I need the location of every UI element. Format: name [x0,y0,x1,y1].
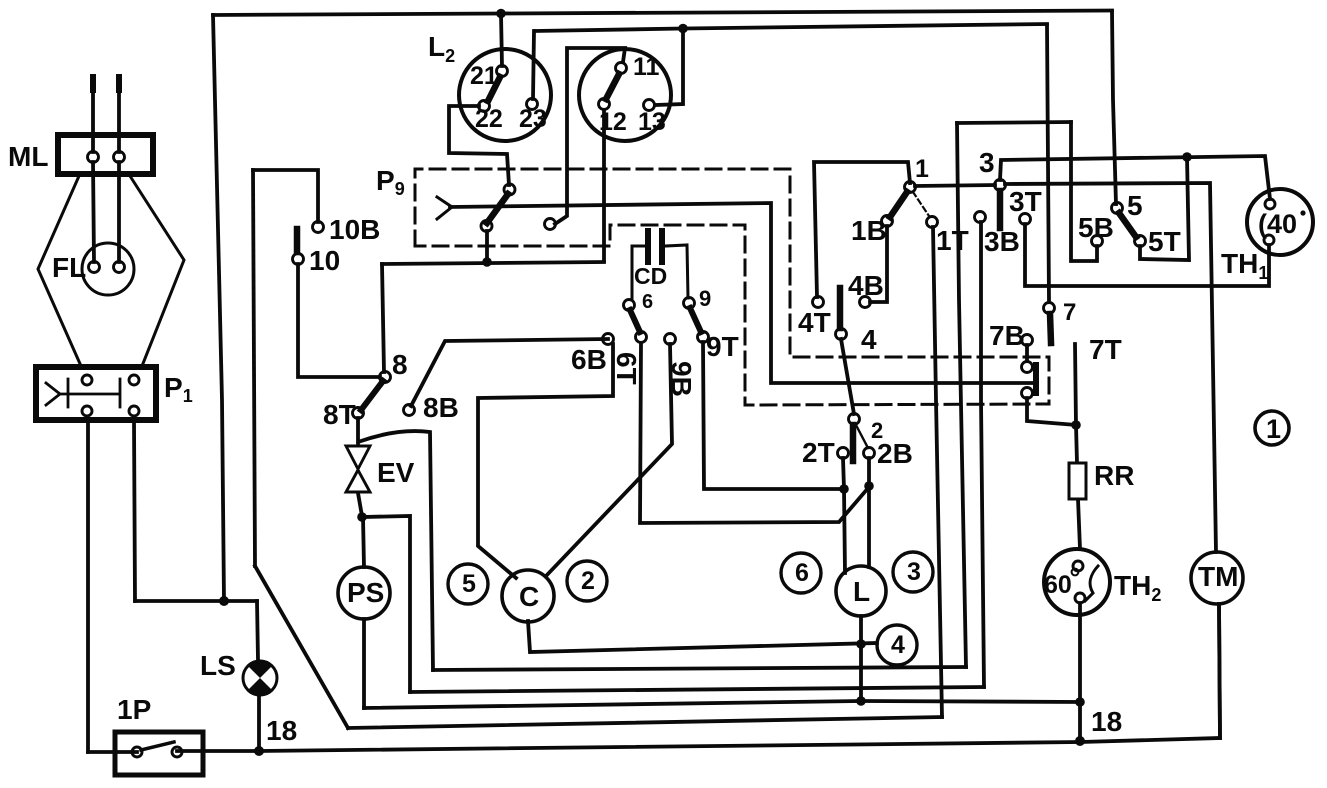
resistor RR [1069,463,1086,499]
terminal circle 4 [877,625,917,665]
wire: second bus drop to contact 7 [1047,25,1049,302]
switch 9 [665,298,709,345]
svg-text:LS: LS [200,650,236,681]
svg-text:3T: 3T [1009,186,1042,217]
svg-text:5: 5 [462,570,476,598]
switch 8 [353,372,415,419]
svg-text:8T: 8T [323,399,356,430]
switch 6 [603,300,647,345]
lamp LS [243,660,277,697]
svg-text:18: 18 [266,715,297,746]
wire: 2T lead [843,458,844,489]
svg-text:13: 13 [638,108,666,136]
terminal block ML [58,135,153,174]
wire: node 3 to TM drop [1005,183,1216,552]
wire: bottom bus riser to TM bottom [1219,604,1220,738]
svg-text:3: 3 [907,558,921,586]
wire: contact 8 riser [382,264,384,372]
junction dot P9 lower contact net [482,257,492,267]
terminal circle 6 [781,553,821,593]
svg-text:6T: 6T [611,352,642,385]
wire: P9 right contact riser to 11 [555,48,625,224]
switch 1 [882,182,938,228]
svg-text:4B: 4B [848,270,884,301]
wire: relay contact lower to RR junction [1027,398,1076,425]
svg-text:23: 23 [519,105,547,133]
svg-text:12: 12 [599,108,627,136]
svg-text:21: 21 [470,62,498,90]
wire: contact 21 riser to top bus [501,14,502,66]
wire: contact 13 link to second bus [655,29,683,105]
terminal circle 3 [893,552,933,592]
svg-text:8: 8 [392,349,408,380]
wire: RR bottom to TH2 top [1078,499,1080,549]
wire: 6B drop jog to C motor [478,344,613,578]
svg-text:L: L [853,576,870,607]
svg-text:FL: FL [52,252,86,283]
motor PS [338,567,390,619]
wire: LS lamp bottom lead [257,696,261,751]
switch 2 [838,414,875,462]
wire: EV top curve to bus1 drop [361,431,433,670]
wire: node line from 8 to P9 lower contact and 12 [382,262,604,264]
junction dot below EV [357,512,367,522]
wire: P9 common feed line [450,203,1033,383]
cam switch L2 left drum [459,49,551,141]
capacitor CD [632,231,688,300]
svg-text:11: 11 [633,53,660,81]
svg-text:60: 60 [1044,571,1072,599]
switch 5 [1092,203,1146,247]
svg-text:1: 1 [915,155,929,183]
svg-text:4: 4 [891,631,905,659]
wire: TH2 bottom lead to bottom bus [1078,603,1082,742]
switch 4 [813,288,871,340]
junction dot second bus at 13 [678,24,688,34]
wire: 1T riser [933,227,942,717]
svg-text:3: 3 [979,147,995,178]
wire: bus1 riser to 5B net corner [957,123,966,667]
svg-text:9: 9 [699,286,711,311]
wire: horizontal link at y=601 [135,599,257,603]
sheet number circle 1 [1255,411,1289,445]
wire: P1 left lead down [86,421,90,752]
svg-text:9B: 9B [666,361,697,397]
wire: bottom bus left segment into 1P [88,750,137,754]
wire: 9T net drop and run to 2T node [703,342,844,489]
switch 7 and relay contact [1022,303,1055,399]
svg-text:10: 10 [309,245,340,276]
svg-text:C: C [519,581,539,612]
junction dot TH1 feed line [1182,152,1192,162]
pressure switch P1 [36,367,156,420]
wire: 6T net drop, run and diagonal to 2B node [640,343,869,523]
wire: 3T net run to TH1 bottom [1025,224,1269,286]
wire: 5B net drop and hook to 5B [1071,122,1097,261]
switch 10 [293,222,324,265]
cam switch right drum [579,49,671,141]
svg-text:EV: EV [377,457,415,488]
wire: 9B drop and diagonal to C motor [546,344,672,576]
svg-text:22: 22 [475,105,503,133]
wire: 8T to EV valve [356,418,360,445]
wire: ML to FL left [93,162,94,262]
wire: 7B to relay contact [1025,345,1029,361]
svg-text:TM: TM [1198,561,1238,592]
svg-text:1T: 1T [936,225,969,256]
wire: bus4 bottom run to 1T riser [348,717,942,728]
svg-text:1P: 1P [117,694,151,725]
mains lead tick right [116,77,122,90]
wire: 7T lead to RR junction [1075,344,1076,425]
svg-text:9T: 9T [706,331,739,362]
junction dot left bus at y601 [219,596,229,606]
wire: contact 23 riser to second bus [533,31,534,99]
junction dot C to L net [856,639,866,649]
wire: 5B net top run [957,122,1071,123]
switch 3 [975,180,1031,229]
wire: L motor top lead left [844,489,845,573]
wire: junction to RR top [1076,425,1077,463]
wire: junction to bus2 drop [362,516,410,692]
degree dot TH2 [1072,569,1079,576]
terminal circle 5 [448,564,488,604]
svg-text:ML: ML [8,141,48,172]
svg-text:RR: RR [1094,460,1134,491]
wire: 4B link to 1B [870,226,887,302]
wire: node 1 up-left to 4T [814,162,910,297]
wire: contact 12 drop to node-8 line [602,110,606,261]
wire: contact 4 to contact 2 [841,339,854,414]
junction dot TH2 on bus3 [1075,697,1085,707]
wire: mains lead left [91,78,95,152]
junction dot node 18 left [254,746,264,756]
wire: bus2 riser to 3B [981,222,984,687]
svg-text:4T: 4T [798,307,831,338]
wire: C motor bottom to circled 4 [528,621,877,652]
svg-text:6: 6 [795,559,809,587]
svg-text:7: 7 [1063,299,1076,326]
wire: second supply bus [535,24,1047,31]
wire: 6B horizontal to 8B diagonal [411,339,608,406]
wire: left drop of 10B net [253,170,255,566]
svg-text:6: 6 [642,291,653,313]
wire: node 3 upper run to TH1 top [1000,156,1270,199]
wire: L motor top lead right [867,486,871,567]
timer motor TM [1191,552,1243,604]
wire: contact 10B riser and jog left [253,170,318,222]
wire: top bus riser down to contact 5 [1112,11,1116,204]
svg-text:10B: 10B [329,214,380,245]
svg-text:8B: 8B [423,392,459,423]
junction dot node 18 right [1075,736,1085,746]
wire: TM bottom lead [1219,604,1220,738]
wire: contact 22 to P9 upper contact [449,106,509,185]
svg-text:7T: 7T [1089,334,1122,365]
svg-text:CD: CD [634,263,667,289]
wire: bus2 bottom run [410,687,984,692]
junction dot 2T node [839,484,849,494]
svg-text:2T: 2T [802,437,835,468]
wire: bus3 bottom run [364,701,1080,708]
svg-text:18: 18 [1091,706,1122,737]
door switch 1P [115,732,203,775]
mains lead tick left [90,77,96,90]
switch P9 [437,184,556,232]
thermostat TH1 [1247,189,1313,255]
wire: bus1 bottom run [433,667,966,670]
thermostat TH2 [1044,549,1110,615]
degree dot TH1 [1300,210,1305,215]
svg-text:1B: 1B [851,215,887,246]
wire: node 1 to node 3 [915,185,995,186]
svg-text:(40: (40 [1258,209,1297,239]
svg-text:2B: 2B [877,438,913,469]
junction dot L bottom on bus3 [856,696,866,706]
svg-text:5T: 5T [1148,226,1181,257]
motor L [836,566,886,616]
svg-text:1: 1 [1266,414,1281,444]
valve EV [346,446,370,492]
motor C [502,570,554,622]
wire: junction to PS top [363,517,364,567]
wire: P9 lower contact riser [485,231,489,262]
svg-text:5B: 5B [1078,212,1114,243]
svg-text:2: 2 [581,567,595,595]
wire: top supply bus [213,11,1112,16]
wire: junction drop to 5T net [1140,157,1189,260]
wire: EV bottom to junction [358,493,362,516]
filter FL housing diamond [38,176,184,366]
svg-text:3B: 3B [984,226,1020,257]
wire: L motor bottom lead [859,616,863,701]
terminal circle 2 [567,561,607,601]
svg-text:5: 5 [1127,190,1143,221]
wire: tall left bus from top corner [213,15,224,601]
wire: mains lead right [117,78,121,152]
svg-text:4: 4 [861,324,877,355]
svg-text:PS: PS [347,577,384,608]
programmer dashed boundary [415,169,1049,405]
wire: drop to LS lamp [257,601,258,660]
wire: diagonal of 10B net to bottom bus4 [255,566,348,728]
svg-text:6B: 6B [571,344,607,375]
svg-text:7B: 7B [989,320,1025,351]
wire: P1 right lead down [134,421,135,601]
filter FL [82,243,134,295]
junction dot 2B node [864,481,874,491]
junction dot 7T RR node [1071,420,1081,430]
wire: contact 10 to contact 8 [298,264,380,377]
junction dot top bus at 21 [496,9,506,19]
wire: PS bottom to bus3 [362,619,366,708]
wire: ML to FL right [117,162,121,262]
wire: 2B lead [867,458,871,486]
wire: bottom bus from 1P to far right [177,738,1220,751]
